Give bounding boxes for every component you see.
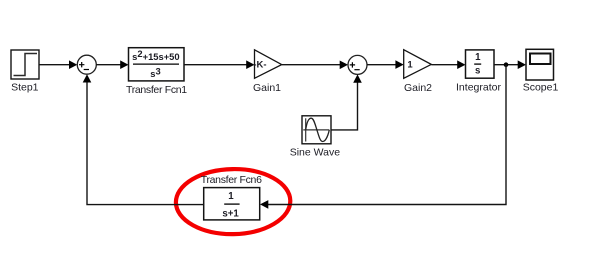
svg-text:-K-: -K- (253, 59, 266, 70)
wire Gain1 to Sum2 (282, 61, 348, 70)
svg-text:Integrator: Integrator (456, 82, 501, 94)
wire Sum1 to Transfer Fcn1 (96, 60, 128, 69)
svg-text:1: 1 (475, 52, 481, 63)
svg-text:Transfer Fcn1: Transfer Fcn1 (126, 84, 187, 96)
red highlight ellipse around Transfer Fcn6 (175, 168, 291, 235)
svg-text:Transfer Fcn6: Transfer Fcn6 (201, 174, 262, 186)
integrator block Integrator (456, 50, 501, 94)
svg-text:Scope1: Scope1 (523, 82, 559, 94)
summing junction Sum2 (348, 55, 367, 74)
svg-text:1: 1 (407, 60, 413, 71)
wire Sum2 to Gain2 (367, 60, 404, 69)
svg-text:Gain2: Gain2 (404, 82, 432, 94)
gain block Gain2 (404, 50, 432, 94)
svg-text:Step1: Step1 (11, 82, 39, 94)
transfer function block Transfer Fcn1 (126, 48, 187, 96)
svg-text:1: 1 (228, 191, 234, 202)
svg-text:Gain1: Gain1 (253, 82, 281, 94)
wire Integrator output down to Transfer Fcn6 (feedback) (260, 65, 506, 209)
wire Transfer Fcn6 to Sum1 (feedback) (83, 74, 204, 204)
wire Integrator to Scope1 (494, 60, 526, 69)
scope block Scope1 (523, 49, 559, 93)
svg-text:s+1: s+1 (222, 209, 239, 220)
step source Step1 (11, 50, 39, 94)
svg-text:Sine Wave: Sine Wave (290, 147, 341, 159)
sine source Sine Wave (290, 116, 341, 159)
wire Transfer Fcn1 to Gain1 (184, 60, 255, 69)
wire Sine Wave to Sum2 (331, 74, 362, 129)
junction node after Integrator (504, 62, 509, 67)
wire Step1 to Sum1 (39, 60, 77, 69)
transfer function block Transfer Fcn6 (201, 174, 262, 220)
svg-text:s: s (475, 65, 480, 76)
wire Gain2 to Integrator (431, 60, 465, 69)
gain block Gain1 (253, 50, 282, 94)
summing junction Sum1 (77, 55, 96, 74)
